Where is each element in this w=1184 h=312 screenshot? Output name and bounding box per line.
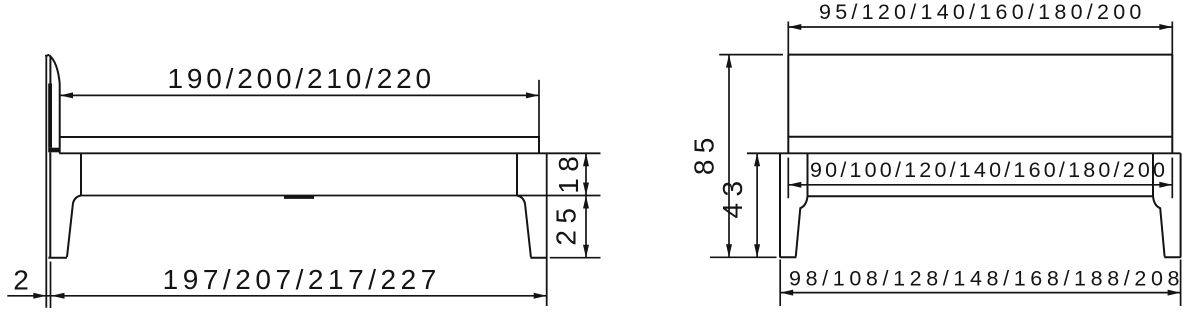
arrow 18 top [583, 153, 589, 166]
front right leg [1164, 153, 1180, 257]
arrow 43 bottom [754, 244, 760, 257]
rail left edge [80, 153, 82, 195]
foot leg bottom [530, 257, 546, 259]
svg-text:90/100/120/140/160/180/200: 90/100/120/140/160/180/200 [810, 158, 1168, 182]
floor extension line right [550, 257, 601, 259]
floor extension left [710, 256, 777, 258]
rail bottom between legs [808, 195, 1155, 197]
head leg front slant [67, 196, 81, 258]
headboard front curve and face [49, 55, 59, 153]
rail top long line (with 43 extension left) [747, 152, 1181, 154]
rail top line (with 18-dim extension to right) [59, 152, 600, 154]
bottom dim extensions [779, 260, 781, 307]
inner dim extensions [787, 158, 789, 199]
arrow inner dim right [1159, 182, 1172, 188]
headboard left edge [787, 55, 789, 153]
arrow bottom dim left [780, 290, 793, 296]
foot leg outer edge (with extension down to dimension) [546, 154, 548, 306]
43 dim line [756, 153, 758, 257]
85 dim line [728, 55, 730, 258]
headboard right edge [1171, 55, 1173, 154]
svg-text:197/207/217/227: 197/207/217/227 [163, 264, 441, 295]
arrow top dim right [1159, 24, 1172, 30]
arrow 25 bottom [583, 245, 589, 258]
dim line 18 + 25 vertical [585, 153, 587, 257]
extension line below head leg [50, 262, 52, 309]
headboard back edge [45, 55, 47, 307]
bottom dim line 197/207/217/227 [7, 295, 546, 297]
svg-text:43: 43 [717, 175, 748, 219]
right drawing dimensions [710, 22, 1181, 307]
headboard apex cap [45, 55, 49, 56]
headboard bottom line [788, 136, 1172, 138]
platform top line [59, 136, 539, 138]
headboard top [788, 54, 1172, 56]
svg-text:98/108/128/148/168/188/208: 98/108/128/148/168/188/208 [789, 267, 1184, 291]
85 dim top extension [719, 54, 783, 56]
arrow 2-dim right / 197 left (outside) [52, 293, 65, 299]
arrow inner dim left [788, 182, 801, 188]
arrow 85 top [726, 55, 732, 68]
head leg bottom [48, 257, 67, 259]
top dim line 95/... [788, 26, 1172, 28]
top dim extensions [787, 22, 789, 55]
arrow 197 right [534, 293, 547, 299]
headboard thick foot [48, 148, 60, 153]
arrow 85 bottom [726, 244, 732, 257]
arrow 25 top [583, 196, 589, 209]
arrow top dim left [788, 24, 801, 30]
rail bottom line (with extension to right) [81, 195, 601, 197]
inner dim line 90/... [788, 184, 1172, 186]
arrow left of 190 dim [60, 92, 73, 98]
arrow bottom dim right [1168, 290, 1181, 296]
bottom dim line 98/... [780, 292, 1180, 294]
svg-text:18: 18 [553, 150, 584, 194]
center support thick dash on rail bottom [284, 195, 314, 198]
extension line right of platform [538, 80, 540, 136]
arrow 43 top [754, 153, 760, 166]
arrow 2-dim left (outside) [33, 293, 46, 299]
dim line 190/200/210/220 [60, 94, 539, 96]
headboard inner line [49, 57, 51, 84]
svg-text:2: 2 [13, 264, 29, 295]
platform right edge [538, 136, 540, 153]
svg-text:85: 85 [688, 131, 719, 175]
svg-text:25: 25 [551, 202, 582, 246]
rail right edge [516, 153, 518, 195]
arrow 18 bottom [583, 183, 589, 196]
foot leg front slant [517, 196, 531, 258]
arrow right of 190 dim [526, 92, 539, 98]
head leg back edge [49, 152, 51, 257]
svg-text:95/120/140/160/180/200: 95/120/140/160/180/200 [819, 0, 1146, 24]
front left leg [780, 153, 796, 257]
left drawing dimensions [7, 80, 600, 308]
svg-text:190/200/210/220: 190/200/210/220 [168, 63, 435, 94]
headboard thick bar [48, 84, 52, 148]
